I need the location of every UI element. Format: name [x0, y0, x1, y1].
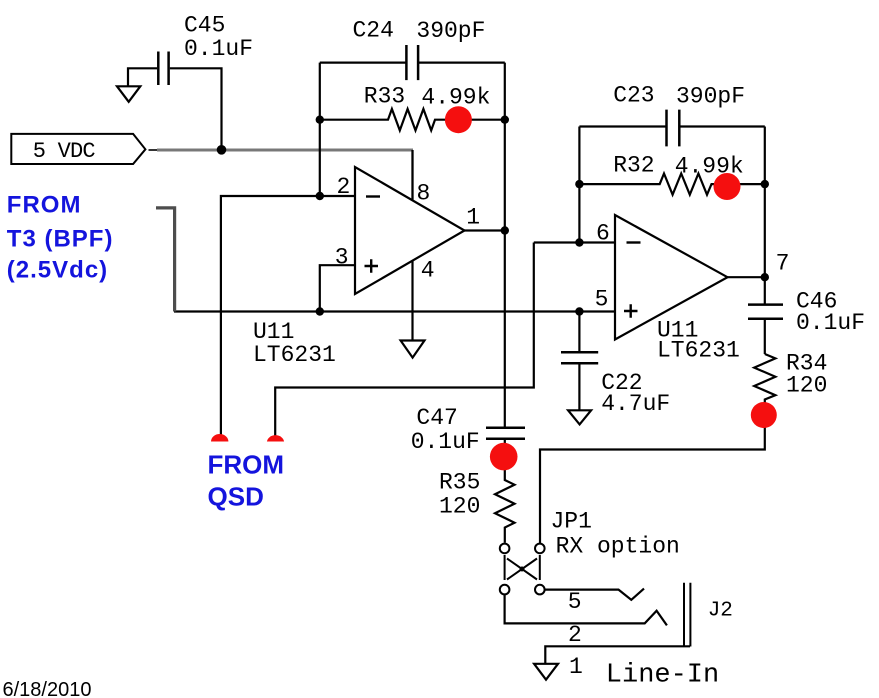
svg-text:3: 3: [335, 245, 349, 271]
svg-text:R32: R32: [613, 153, 654, 179]
svg-text:FROM: FROM: [7, 191, 82, 218]
svg-text:T3 (BPF): T3 (BPF): [7, 226, 114, 253]
svg-text:4.99k: 4.99k: [675, 154, 744, 180]
svg-text:4.99k: 4.99k: [421, 85, 490, 111]
svg-text:5: 5: [568, 589, 582, 615]
svg-text:2: 2: [568, 622, 582, 648]
svg-text:QSD: QSD: [208, 482, 264, 512]
svg-text:0.1uF: 0.1uF: [184, 36, 253, 62]
svg-text:8: 8: [417, 181, 431, 207]
svg-text:JP1: JP1: [551, 509, 592, 535]
svg-text:R33: R33: [364, 84, 405, 110]
svg-text:5 VDC: 5 VDC: [33, 139, 96, 164]
svg-text:0.1uF: 0.1uF: [411, 429, 480, 455]
svg-text:FROM: FROM: [208, 450, 285, 480]
svg-text:390pF: 390pF: [416, 18, 485, 44]
svg-text:J2: J2: [708, 600, 733, 623]
svg-text:1: 1: [569, 654, 583, 680]
svg-text:1: 1: [466, 205, 480, 231]
svg-text:4: 4: [421, 258, 435, 284]
svg-text:6/18/2010: 6/18/2010: [3, 679, 92, 698]
svg-text:RX option: RX option: [556, 534, 680, 560]
svg-text:C47: C47: [416, 405, 457, 431]
svg-text:0.1uF: 0.1uF: [796, 310, 865, 336]
svg-text:4.7uF: 4.7uF: [601, 391, 670, 417]
svg-text:2: 2: [337, 174, 351, 200]
svg-text:Line-In: Line-In: [606, 661, 719, 691]
svg-text:LT6231: LT6231: [657, 338, 740, 364]
svg-text:C45: C45: [184, 13, 225, 39]
svg-text:C23: C23: [613, 83, 654, 109]
svg-text:5: 5: [595, 287, 609, 313]
svg-text:390pF: 390pF: [676, 84, 745, 110]
svg-text:(2.5Vdc): (2.5Vdc): [7, 256, 108, 283]
svg-text:6: 6: [596, 221, 610, 247]
svg-text:120: 120: [439, 494, 480, 520]
svg-text:LT6231: LT6231: [253, 342, 336, 368]
svg-text:7: 7: [776, 251, 790, 277]
svg-text:C24: C24: [353, 18, 394, 44]
svg-text:R35: R35: [439, 470, 480, 496]
svg-text:120: 120: [786, 373, 827, 399]
